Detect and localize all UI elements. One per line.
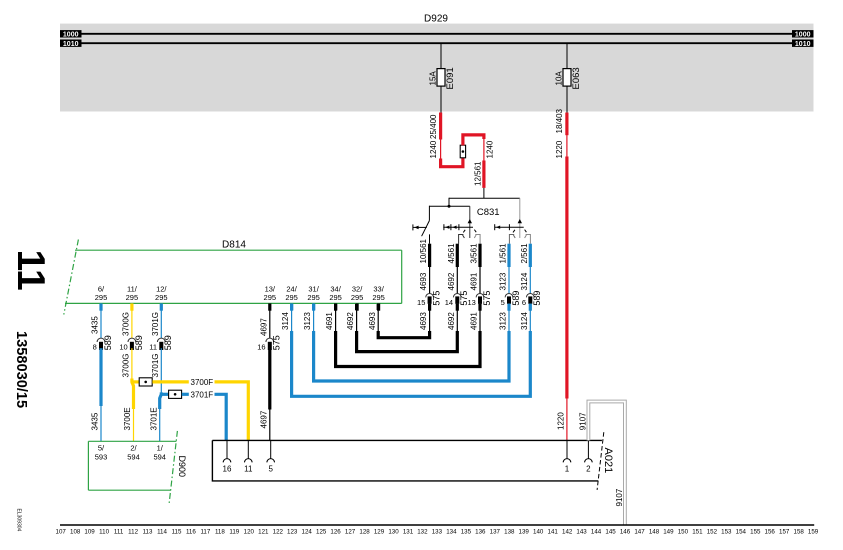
svg-text:3124: 3124 <box>520 272 529 290</box>
wire 3700F yellow run to A021 <box>215 382 249 441</box>
inline connector 5/589 <box>505 293 513 297</box>
svg-text:589: 589 <box>511 291 521 306</box>
svg-text:15A: 15A <box>429 71 438 86</box>
svg-text:3701E: 3701E <box>149 407 158 430</box>
svg-text:589: 589 <box>163 335 173 350</box>
svg-text:145: 145 <box>605 529 616 536</box>
A021 pin 11 <box>247 440 249 458</box>
svg-text:121: 121 <box>258 529 269 536</box>
wire 3124 blue thin section above connector 589 <box>529 267 531 295</box>
svg-text:158: 158 <box>794 529 805 536</box>
wire 3700G yellow thin section (from D814 pin 11) <box>131 310 133 338</box>
svg-text:132: 132 <box>417 529 428 536</box>
svg-text:128: 128 <box>359 529 370 536</box>
wire 4691 black thin section above connector 575 <box>479 267 481 295</box>
wire 10/561 black (C831 pin 10) <box>428 244 431 267</box>
svg-text:589: 589 <box>532 291 542 306</box>
wire 3123 blue thin section above connector 589 <box>508 267 510 295</box>
svg-text:3701G: 3701G <box>151 353 160 377</box>
svg-text:156: 156 <box>765 529 776 536</box>
svg-text:3123: 3123 <box>303 312 312 330</box>
wire 4692 black thin section at D814 side <box>356 310 358 332</box>
A021 pin 16 <box>226 440 228 458</box>
svg-text:E063: E063 <box>571 67 582 89</box>
D814 pin stub at x=335.6 <box>334 303 337 310</box>
svg-text:295: 295 <box>351 293 364 302</box>
svg-text:146: 146 <box>620 529 631 536</box>
A021 pin 2 <box>587 440 589 458</box>
wire 3701G blue below connector <box>160 348 162 393</box>
svg-text:1010: 1010 <box>63 41 79 48</box>
S2 throw contact right (pin 3) <box>475 235 480 244</box>
wire 4691 black U-loop to D814 <box>336 331 480 367</box>
node label 1010 (left) <box>60 40 82 47</box>
wire 3123 blue below connector 589 <box>507 304 510 311</box>
switch contact S3 (pins 1/2) <box>519 198 521 238</box>
inline connector 15/575 <box>426 293 434 297</box>
wire 4693 black below connector 575 <box>428 304 431 311</box>
fuse E063 10A <box>566 43 568 68</box>
svg-text:16: 16 <box>257 342 265 351</box>
svg-text:151: 151 <box>692 529 703 536</box>
svg-text:4/561: 4/561 <box>447 243 456 264</box>
svg-text:16: 16 <box>223 465 232 474</box>
svg-text:133: 133 <box>432 529 443 536</box>
D814 pin stub at x=291.6 <box>290 303 293 310</box>
wire 4692 black U-loop to D814 <box>357 331 458 352</box>
svg-text:111: 111 <box>114 529 124 536</box>
svg-text:2: 2 <box>586 465 591 474</box>
svg-text:5: 5 <box>501 298 505 307</box>
inline connector 8/589 <box>97 338 105 342</box>
svg-text:3435: 3435 <box>91 412 100 430</box>
inline connector 11/589 <box>157 338 165 342</box>
inline connector 13/575 <box>476 294 484 298</box>
grid reference numbers 107-159 <box>56 529 819 536</box>
svg-text:5/: 5/ <box>98 443 105 452</box>
S3 throw contact right (pin 2) <box>526 235 531 244</box>
svg-text:1358030/15: 1358030/15 <box>13 331 29 408</box>
svg-text:1/561: 1/561 <box>499 243 508 264</box>
svg-text:3123: 3123 <box>499 272 508 290</box>
svg-text:D900: D900 <box>177 456 187 478</box>
inline connector 6/589 <box>526 293 534 297</box>
wire 3124 blue U-loop to D814 <box>292 331 531 396</box>
svg-text:4691: 4691 <box>470 272 479 290</box>
node label 1000 (right) <box>792 30 814 37</box>
svg-text:139: 139 <box>519 529 530 536</box>
svg-text:2/: 2/ <box>130 443 137 452</box>
wire 4697 black thin section (from D814 pin 13) <box>269 310 271 338</box>
wire 3701E blue to D900 <box>160 392 162 409</box>
node label 1000 (left) <box>60 30 82 37</box>
svg-text:3123: 3123 <box>499 312 508 330</box>
svg-text:3701F: 3701F <box>191 390 214 399</box>
wire 3435 blue main run <box>99 348 102 406</box>
svg-text:4692: 4692 <box>346 312 355 330</box>
A021 right cut edge (dashed) <box>597 432 604 490</box>
svg-text:6: 6 <box>522 298 526 307</box>
wire 3435 blue thin section (from D814 pin 6) <box>100 310 102 338</box>
wire 4692 black thin section above connector 575 <box>456 267 458 295</box>
svg-text:D814: D814 <box>222 240 246 251</box>
D814 left cut edge (dash-dot) <box>64 240 79 315</box>
svg-text:8: 8 <box>93 342 97 351</box>
svg-text:589: 589 <box>134 335 144 350</box>
svg-text:3/561: 3/561 <box>470 243 479 264</box>
svg-text:4693: 4693 <box>419 272 428 290</box>
wire 2/561 blue (C831 pin 2) <box>529 244 532 267</box>
svg-text:136: 136 <box>475 529 486 536</box>
svg-text:120: 120 <box>244 529 255 536</box>
svg-text:118: 118 <box>215 529 225 536</box>
wire 4692 black below connector 575 <box>456 304 459 311</box>
wire 18/403 red (from fuse E063) <box>565 113 568 136</box>
svg-text:4693: 4693 <box>368 312 377 330</box>
svg-text:126: 126 <box>330 529 341 536</box>
wire 3124 blue below connector 589 <box>529 304 532 311</box>
svg-text:A021: A021 <box>602 448 614 474</box>
svg-text:14: 14 <box>445 298 453 307</box>
wire 1240 red elbow to splice <box>441 158 463 167</box>
svg-text:112: 112 <box>128 529 138 536</box>
svg-text:575: 575 <box>272 335 282 350</box>
svg-text:295: 295 <box>155 293 168 302</box>
svg-text:116: 116 <box>186 529 196 536</box>
D814 pin stub at x=131.9 <box>130 303 133 310</box>
inline connector 16/575 <box>266 338 274 342</box>
svg-text:152: 152 <box>707 529 718 536</box>
svg-text:114: 114 <box>157 529 167 536</box>
svg-text:295: 295 <box>264 293 277 302</box>
svg-text:10/561: 10/561 <box>419 238 428 263</box>
wire 3123 blue U-loop to D814 <box>314 331 509 381</box>
wire 3701G blue thin section (from D814 pin 12) <box>160 310 162 338</box>
svg-text:142: 142 <box>562 529 573 536</box>
svg-text:575: 575 <box>432 291 442 306</box>
svg-text:108: 108 <box>70 529 81 536</box>
wire 4697 black thin section at A021 <box>269 409 271 440</box>
svg-text:10: 10 <box>119 342 127 351</box>
wire 4693 black thin section above connector 575 <box>429 267 431 295</box>
wire 4693 black U-loop to D814 <box>378 331 429 338</box>
svg-text:4692: 4692 <box>447 272 456 290</box>
svg-text:150: 150 <box>678 529 689 536</box>
svg-text:135: 135 <box>461 529 472 536</box>
svg-text:D929: D929 <box>424 14 448 25</box>
svg-text:3701G: 3701G <box>151 312 160 336</box>
svg-text:109: 109 <box>84 529 95 536</box>
S2 throw contact left (pin 4) <box>459 235 464 244</box>
svg-text:15: 15 <box>417 298 425 307</box>
svg-text:1: 1 <box>565 465 570 474</box>
svg-text:1220: 1220 <box>555 140 564 158</box>
C831 internal left drop <box>448 198 450 207</box>
svg-text:153: 153 <box>721 529 732 536</box>
wire 1240 red elbow from splice to right branch <box>463 135 484 146</box>
wire 1240 red thin section (right) <box>483 139 485 162</box>
svg-text:3700G: 3700G <box>122 312 131 336</box>
control unit D814 (green box) <box>75 249 402 251</box>
C831 internal top rail <box>449 197 520 199</box>
D814 pin stub at x=357.1 <box>356 303 359 310</box>
svg-text:18/403: 18/403 <box>555 108 564 133</box>
svg-text:594: 594 <box>153 452 166 461</box>
svg-text:295: 295 <box>285 293 298 302</box>
svg-text:2/561: 2/561 <box>520 243 529 264</box>
svg-text:3435: 3435 <box>91 316 100 334</box>
svg-text:125: 125 <box>316 529 327 536</box>
svg-text:4691: 4691 <box>470 312 479 330</box>
svg-text:1240: 1240 <box>429 140 438 158</box>
svg-text:113: 113 <box>143 529 153 536</box>
wire 1220 red thin section at A021 <box>566 398 568 440</box>
svg-text:1000: 1000 <box>795 31 811 38</box>
svg-text:1000: 1000 <box>63 31 79 38</box>
svg-text:E091: E091 <box>445 67 456 89</box>
svg-text:129: 129 <box>374 529 385 536</box>
svg-text:4693: 4693 <box>419 312 428 330</box>
splice connector (red, with dot) <box>460 145 465 158</box>
svg-text:143: 143 <box>576 529 587 536</box>
svg-text:EL309304: EL309304 <box>16 509 22 532</box>
svg-text:140: 140 <box>533 529 544 536</box>
wire 1220 red thin section <box>566 135 568 157</box>
D900 right cut edge (dash-dot) <box>169 431 177 504</box>
svg-text:295: 295 <box>329 293 342 302</box>
splice connector (blue, with dot) <box>169 390 182 398</box>
wire 9107 gray (double line from A021 pin 2) <box>588 402 625 525</box>
svg-text:159: 159 <box>808 529 819 536</box>
power distribution unit D929 (gray band) <box>60 24 814 112</box>
svg-text:4692: 4692 <box>447 312 456 330</box>
svg-text:9107: 9107 <box>578 412 587 430</box>
wire 3700F yellow run to label <box>152 380 188 383</box>
svg-text:115: 115 <box>172 529 182 536</box>
wire 3700G yellow below connector <box>131 348 133 379</box>
svg-text:4697: 4697 <box>259 318 268 336</box>
svg-text:593: 593 <box>95 452 108 461</box>
wire 1240 red (thin section, left) <box>440 139 442 159</box>
svg-text:1240: 1240 <box>486 140 495 158</box>
switch contact S2 (pins 4/3) <box>469 206 471 238</box>
svg-text:3700E: 3700E <box>123 407 132 430</box>
svg-text:5: 5 <box>268 465 273 474</box>
svg-text:137: 137 <box>490 529 501 536</box>
wire 1/561 blue (C831 pin 1) <box>507 244 510 267</box>
C831 internal second rail <box>429 205 469 207</box>
svg-text:110: 110 <box>99 529 109 536</box>
svg-text:123: 123 <box>287 529 298 536</box>
node label 1010 (right) <box>792 40 814 47</box>
svg-text:144: 144 <box>591 529 602 536</box>
svg-text:11: 11 <box>9 250 52 291</box>
svg-text:147: 147 <box>634 529 645 536</box>
svg-text:157: 157 <box>779 529 790 536</box>
svg-text:589: 589 <box>103 335 113 350</box>
bus wire 1000 <box>80 33 793 35</box>
svg-text:141: 141 <box>548 529 559 536</box>
connector unit A021 (black box) <box>212 439 602 441</box>
wire from 12/561 into C831 <box>483 188 485 198</box>
svg-text:3124: 3124 <box>281 312 290 330</box>
wire 3124 blue thin section at D814 side <box>291 310 293 332</box>
wire 3435 blue thin section at D900 <box>100 406 102 442</box>
wire 4/561 black (C831 pin 4) <box>456 244 459 267</box>
wire 3701F blue branch from junction <box>160 393 169 396</box>
svg-text:1220: 1220 <box>556 412 565 430</box>
svg-text:131: 131 <box>403 529 414 536</box>
wire 3/561 black (C831 pin 3) <box>478 244 481 267</box>
svg-text:3700G: 3700G <box>122 353 131 377</box>
svg-text:10A: 10A <box>555 71 564 86</box>
svg-text:295: 295 <box>307 293 320 302</box>
switch contact S1 (pin 10) <box>428 206 430 221</box>
splice connector (yellow, with dot) <box>139 378 152 386</box>
svg-text:11: 11 <box>149 342 157 351</box>
wire 3701F blue run to A021 <box>215 394 227 440</box>
svg-text:25/400: 25/400 <box>429 114 438 139</box>
wire 12/561 red (to C831) <box>482 161 485 188</box>
inline connector 10/589 <box>128 338 136 342</box>
svg-text:3700F: 3700F <box>191 378 214 387</box>
D814 pin stub at x=269.8 <box>268 303 271 310</box>
svg-text:138: 138 <box>504 529 515 536</box>
wire 4697 black main run <box>268 348 271 409</box>
svg-text:134: 134 <box>446 529 457 536</box>
svg-text:C831: C831 <box>477 207 500 218</box>
wire 3700E yellow to D900 <box>132 379 134 410</box>
S3 throw contact left (pin 1) <box>509 235 514 244</box>
svg-text:130: 130 <box>388 529 399 536</box>
wire 3123 blue thin section at D814 side <box>313 310 315 332</box>
svg-text:9107: 9107 <box>615 488 624 506</box>
svg-text:154: 154 <box>736 529 747 536</box>
inline connector 14/575 <box>453 293 461 297</box>
svg-text:149: 149 <box>663 529 674 536</box>
svg-text:295: 295 <box>372 293 385 302</box>
svg-text:575: 575 <box>482 291 492 306</box>
wire 4691 black below connector 575 <box>478 304 481 311</box>
svg-text:117: 117 <box>200 529 210 536</box>
bus wire 1010 <box>80 42 793 44</box>
D814 pin stub at x=378.6 <box>377 303 380 310</box>
svg-text:1/: 1/ <box>157 443 164 452</box>
wire 4693 black thin section at D814 side <box>377 310 379 332</box>
svg-text:12/561: 12/561 <box>473 161 482 186</box>
svg-text:295: 295 <box>95 293 108 302</box>
svg-text:124: 124 <box>302 529 313 536</box>
wire 3700F yellow branch from junction <box>131 380 140 383</box>
grid reference ruler line <box>60 524 814 526</box>
svg-text:295: 295 <box>126 293 139 302</box>
D814 pin stub at x=101 <box>99 303 102 310</box>
wire 1220 red main run to A021 <box>565 157 568 399</box>
svg-text:119: 119 <box>229 529 239 536</box>
svg-text:122: 122 <box>273 529 284 536</box>
svg-text:3124: 3124 <box>520 312 529 330</box>
svg-text:4697: 4697 <box>259 410 268 428</box>
connector unit D900 (green box) <box>88 440 176 442</box>
D814 pin stub at x=313.6 <box>312 303 315 310</box>
svg-text:127: 127 <box>345 529 356 536</box>
fuse E091 15A <box>440 43 442 68</box>
svg-text:594: 594 <box>127 452 140 461</box>
wire 4691 black thin section at D814 side <box>335 310 337 332</box>
D814 pin stub at x=161.3 <box>160 303 163 310</box>
wire 25/400 red (from fuse E091) <box>439 113 442 140</box>
svg-text:148: 148 <box>649 529 660 536</box>
svg-text:1010: 1010 <box>795 41 811 48</box>
svg-text:4691: 4691 <box>325 312 334 330</box>
junction dot <box>448 205 451 208</box>
svg-text:107: 107 <box>56 529 67 536</box>
svg-text:11: 11 <box>244 465 253 474</box>
A021 pin 5 <box>270 440 272 458</box>
svg-text:13: 13 <box>467 298 475 307</box>
svg-text:155: 155 <box>750 529 761 536</box>
wire 3701F blue run to label <box>182 393 189 396</box>
A021 pin 1 <box>566 440 568 458</box>
